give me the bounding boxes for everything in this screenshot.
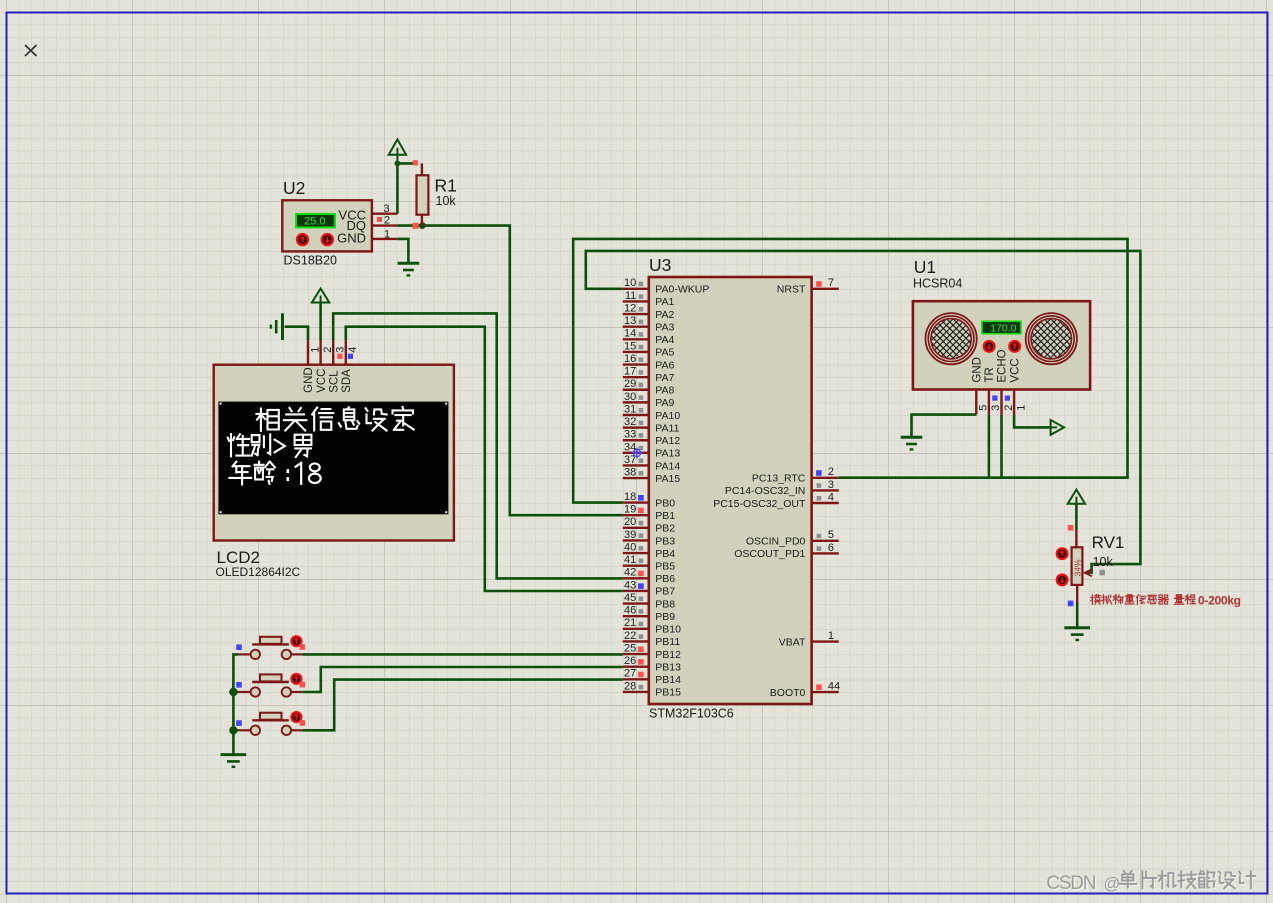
svg-text:3: 3 [828, 479, 834, 491]
wire net PB0-ECHO (W1) [573, 239, 1127, 503]
svg-text:2: 2 [384, 214, 390, 226]
svg-text:16: 16 [624, 353, 636, 365]
origin marker [25, 45, 37, 56]
ground U1 [901, 436, 923, 439]
U3 pin 14 PA4 [623, 338, 649, 340]
svg-text:OSCIN_PD0: OSCIN_PD0 [746, 536, 806, 548]
power arrow LCD VCC pin2 [319, 303, 322, 341]
svg-text:42: 42 [624, 567, 636, 579]
U3 pin 6 OSCOUT_PD1 [812, 552, 839, 554]
svg-text:OLED12864I2C: OLED12864I2C [216, 565, 301, 579]
U3 pin 45 PB8 [623, 602, 649, 604]
svg-text:OSCOUT_PD1: OSCOUT_PD1 [734, 548, 805, 560]
svg-text:PA14: PA14 [655, 460, 680, 472]
ground U2 [398, 262, 420, 265]
U3 pin 12 PA2 [623, 313, 649, 315]
svg-text:21: 21 [624, 617, 636, 629]
svg-text:10k: 10k [436, 194, 457, 208]
U3 pin 42 PB6 [623, 577, 649, 579]
svg-text:3: 3 [990, 405, 1002, 411]
svg-text:6: 6 [828, 542, 834, 554]
U1 display 170.0 [982, 321, 1021, 333]
svg-text:PB3: PB3 [655, 535, 675, 547]
U3 pin 32 PA11 [623, 426, 649, 428]
svg-text:10k: 10k [1093, 555, 1114, 569]
svg-text:PA11: PA11 [655, 422, 679, 434]
svg-text:0-200kg: 0-200kg [1198, 593, 1241, 607]
svg-text:BOOT0: BOOT0 [770, 687, 806, 699]
svg-text:46: 46 [624, 605, 636, 617]
svg-text:5: 5 [978, 405, 990, 411]
wire DQ net: U2.DQ - R1 - U3.PB1 [397, 226, 622, 516]
svg-text:19: 19 [624, 504, 636, 516]
svg-text:22: 22 [624, 630, 636, 642]
wire U1 TR down [988, 415, 991, 478]
wire U2 GND to ground [397, 239, 408, 263]
svg-text:30: 30 [624, 391, 636, 403]
svg-text:VCC: VCC [1009, 358, 1021, 382]
U1 up button [1009, 341, 1020, 352]
svg-text:PB8: PB8 [655, 598, 675, 610]
U3 part anchor mark [632, 448, 643, 459]
svg-text:13: 13 [624, 315, 636, 327]
svg-text:170.0: 170.0 [990, 322, 1016, 334]
component LCD2 OLED body [214, 365, 454, 541]
wire button ground bus [233, 654, 238, 754]
svg-text:25.0: 25.0 [304, 216, 325, 228]
U3 pin 43 PB7 [623, 590, 649, 592]
U2 pin 2 DQ stub [372, 224, 398, 226]
svg-text:3: 3 [384, 203, 390, 215]
U3 pin 5 OSCIN_PD0 [812, 540, 839, 542]
LCD2 pin stubs [307, 340, 309, 365]
junction button2 bus [229, 688, 237, 696]
svg-text:R1: R1 [435, 176, 457, 196]
svg-text:39: 39 [624, 529, 636, 541]
ground buttons [221, 753, 247, 756]
U3 pin 15 PA5 [623, 351, 649, 353]
power arrow U2/R1 [396, 155, 398, 164]
junction R1 top [395, 161, 401, 167]
RV1 annotation red text [1091, 595, 1101, 605]
wire LCD SDA to PB7 [346, 327, 623, 591]
LCD2 black screen [218, 402, 448, 515]
svg-text:PB2: PB2 [655, 523, 675, 535]
svg-text:3: 3 [335, 347, 347, 353]
component U1 HCSR04 body [913, 301, 1090, 389]
potentiometer RV1 body [1072, 547, 1083, 585]
svg-text:27: 27 [624, 668, 636, 680]
push button [260, 637, 282, 644]
wire LCD SCL to PB6 [333, 313, 623, 578]
svg-text:DS18B20: DS18B20 [284, 254, 338, 268]
wire LCD GND pin1 [285, 327, 308, 340]
svg-text:PA15: PA15 [655, 473, 680, 485]
svg-text:5: 5 [828, 529, 834, 541]
power arrow U1 VCC [1014, 415, 1051, 428]
wire U1 ECHO down [1000, 415, 1003, 478]
svg-text:HCSR04: HCSR04 [913, 276, 962, 290]
svg-text:@: @ [1104, 875, 1121, 893]
svg-text:28: 28 [624, 680, 636, 692]
svg-text:SCL: SCL [328, 370, 340, 393]
svg-text:38: 38 [624, 467, 636, 479]
U3 pin 46 PB9 [623, 615, 649, 617]
svg-text:4: 4 [347, 347, 359, 353]
svg-text:GND: GND [972, 357, 984, 383]
svg-text:17: 17 [624, 366, 636, 378]
svg-text:PA0-WKUP: PA0-WKUP [655, 284, 709, 296]
LCD2 screen text line3 [229, 462, 251, 485]
svg-text:PB9: PB9 [655, 611, 675, 623]
svg-text:U3: U3 [649, 255, 671, 275]
svg-text:PB13: PB13 [655, 661, 681, 673]
U1 down button [984, 341, 995, 352]
svg-text:1: 1 [828, 630, 834, 642]
U3 pin 27 PB14 [623, 678, 649, 680]
svg-text:PC13_RTC: PC13_RTC [752, 473, 806, 485]
svg-text:TR: TR [984, 367, 996, 382]
svg-text:32: 32 [624, 416, 636, 428]
svg-text:26: 26 [624, 655, 636, 667]
svg-text:43: 43 [624, 579, 636, 591]
svg-text:PB10: PB10 [655, 624, 681, 636]
junction R1 bottom / DQ [419, 222, 426, 229]
U3 pin 3 PC14-OSC32_IN [812, 489, 839, 491]
svg-text:GND: GND [337, 230, 366, 245]
svg-text:PA3: PA3 [655, 321, 674, 333]
svg-text:2: 2 [828, 466, 834, 478]
U3 pin 31 PA10 [623, 414, 649, 416]
U3 pin 10 PA0-WKUP [623, 288, 649, 290]
svg-text:PB1: PB1 [655, 510, 675, 522]
U3 pin 22 PB11 [623, 640, 649, 642]
U3 pin 17 PA7 [623, 376, 649, 378]
U2 pin 3 VCC stub [372, 212, 398, 214]
RV1 wiper arrow [1085, 569, 1092, 576]
svg-text:18: 18 [624, 491, 636, 503]
svg-text:15: 15 [624, 340, 636, 352]
svg-text:4: 4 [828, 491, 834, 503]
svg-text:PA6: PA6 [655, 359, 674, 371]
wire U2 VCC vertical [396, 163, 399, 213]
U3 pin 40 PB4 [623, 552, 649, 554]
watermark CSDN [1046, 873, 1121, 895]
U2 display 25.0 [296, 214, 335, 227]
svg-text:PC15-OSC32_OUT: PC15-OSC32_OUT [713, 498, 806, 510]
U3 pin 28 PB15 [623, 691, 649, 693]
svg-text:PA1: PA1 [655, 296, 674, 308]
U3 pin 18 PB0 [623, 501, 649, 503]
wire RV1 bottom to ground [1076, 603, 1079, 628]
svg-text:NRST: NRST [777, 284, 806, 296]
resistor R1 bottom lead [421, 215, 423, 226]
U3 pin 29 PA8 [623, 389, 649, 391]
potentiometer RV1 top lead [1075, 529, 1077, 547]
resistor R1 body [417, 175, 429, 214]
svg-text:RV1: RV1 [1092, 533, 1125, 552]
svg-text:U2: U2 [283, 178, 305, 198]
resistor R1 top lead [421, 163, 423, 176]
svg-text:PB7: PB7 [655, 586, 675, 598]
svg-text:PB15: PB15 [655, 687, 681, 699]
power arrow RV1 [1075, 504, 1077, 510]
svg-text:45: 45 [624, 592, 636, 604]
svg-text:U1: U1 [914, 257, 936, 277]
wire net PA0-RV1 wiper (W2) [586, 251, 1141, 573]
svg-text:2: 2 [1003, 405, 1015, 411]
U1 left transducer [926, 313, 977, 364]
svg-text:7: 7 [828, 277, 834, 289]
ground RV1 [1064, 626, 1090, 629]
svg-text:PA10: PA10 [655, 410, 680, 422]
svg-text:29: 29 [624, 378, 636, 390]
svg-text:31: 31 [624, 403, 636, 415]
U3 pin 44 BOOT0 [812, 691, 839, 693]
ground LCD (rotated) [281, 313, 284, 340]
U3 pin 2 PC13_RTC [812, 477, 839, 479]
svg-text:PA2: PA2 [655, 309, 674, 321]
svg-text:1: 1 [384, 229, 390, 241]
svg-text:44: 44 [828, 681, 840, 693]
svg-text:2: 2 [322, 347, 334, 353]
svg-text:CSDN: CSDN [1046, 873, 1096, 894]
wire button3 to PB14 [302, 680, 623, 731]
U3 pin 26 PB13 [623, 665, 649, 667]
U3 pin 16 PA6 [623, 363, 649, 365]
U2 pin 1 GND stub [372, 238, 398, 240]
svg-text:STM32F103C6: STM32F103C6 [649, 707, 734, 721]
RV1 up button [1057, 548, 1068, 559]
svg-text:1: 1 [1015, 405, 1027, 411]
LCD2 screen text line2 [228, 434, 250, 456]
svg-text:PA13: PA13 [655, 448, 680, 460]
wire R1 top link [397, 162, 415, 165]
svg-text:GND: GND [303, 367, 315, 393]
U2 DQ pin end marker [413, 223, 419, 229]
svg-text:20: 20 [624, 516, 636, 528]
svg-text:34%: 34% [1073, 559, 1083, 576]
svg-text:14: 14 [624, 328, 636, 340]
RV1 down button [1057, 575, 1068, 586]
U3 pin 39 PB3 [623, 539, 649, 541]
svg-text:PA12: PA12 [655, 435, 680, 447]
push button [260, 674, 282, 681]
svg-text:PB11: PB11 [655, 636, 680, 648]
svg-text:25: 25 [624, 642, 636, 654]
U3 pin 7 NRST [812, 288, 839, 290]
svg-text:1: 1 [309, 347, 321, 353]
U3 pin 4 PC15-OSC32_OUT [812, 502, 839, 504]
wire RV1 top power [1075, 504, 1078, 530]
svg-text:PC14-OSC32_IN: PC14-OSC32_IN [725, 485, 806, 497]
wire button2 to PB13 [302, 667, 623, 692]
U3 pin 21 PB10 [623, 628, 649, 630]
svg-text:VBAT: VBAT [779, 636, 806, 648]
svg-text:PB0: PB0 [655, 497, 675, 509]
wire U1 GND to ground [912, 415, 977, 438]
svg-text:PA7: PA7 [655, 372, 674, 384]
U3 pin 13 PA3 [623, 325, 649, 327]
U3 pin 37 PA14 [623, 464, 649, 466]
svg-text:41: 41 [624, 554, 636, 566]
svg-text:PA5: PA5 [655, 347, 674, 359]
U1 pin stubs [975, 390, 977, 415]
svg-text:10: 10 [624, 277, 636, 289]
svg-text:PA9: PA9 [655, 397, 674, 409]
U3 pin 20 PB2 [623, 527, 649, 529]
junction button3 bus [229, 726, 237, 734]
U3 pin 11 PA1 [623, 300, 649, 302]
svg-text:PB14: PB14 [655, 674, 681, 686]
svg-text:PB6: PB6 [655, 573, 675, 585]
LCD2 screen text line1 [257, 409, 279, 431]
U3 pin 1 VBAT [812, 640, 839, 642]
U3 pin 19 PB1 [623, 514, 649, 516]
U3 pin 34 PA13 [623, 452, 649, 454]
wire button1 to PB12 [302, 653, 623, 656]
U3 pin 33 PA12 [623, 439, 649, 441]
RV1 bottom lead [1076, 585, 1078, 603]
U3 pin 25 PB12 [623, 653, 649, 655]
svg-text:40: 40 [624, 541, 636, 553]
U3 pin 41 PB5 [623, 565, 649, 567]
component U3 STM32F103C6 body [649, 277, 812, 704]
U2 down button [322, 234, 333, 245]
svg-text:SDA: SDA [341, 369, 353, 393]
wire PC13-TR-ECHO horizontal [839, 476, 1128, 479]
svg-text:PB4: PB4 [655, 548, 675, 560]
U3 pin 38 PA15 [623, 477, 649, 479]
svg-text:12: 12 [624, 302, 636, 314]
U2 up button [297, 234, 308, 245]
svg-text:ECHO: ECHO [997, 349, 1009, 382]
svg-text:PB12: PB12 [655, 649, 681, 661]
component U2 DS18B20 body [282, 200, 372, 251]
push button [260, 713, 282, 720]
svg-text:VCC: VCC [316, 369, 328, 393]
svg-text:PB5: PB5 [655, 561, 675, 573]
svg-text:PA8: PA8 [655, 385, 674, 397]
svg-text:33: 33 [624, 429, 636, 441]
svg-text:PA4: PA4 [655, 334, 674, 346]
svg-text:11: 11 [625, 290, 636, 302]
U3 pin 30 PA9 [623, 401, 649, 403]
